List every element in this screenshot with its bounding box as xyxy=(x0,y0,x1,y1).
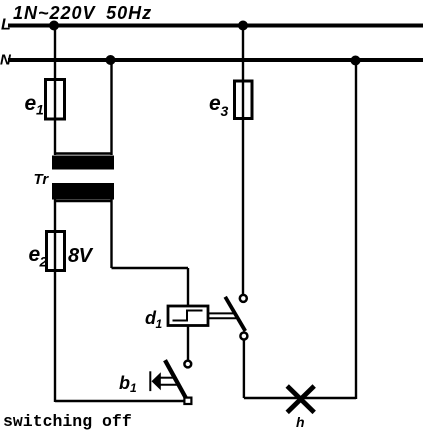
lamp h xyxy=(287,386,314,412)
push-button b1 (NO contact) xyxy=(150,360,191,404)
label e2 xyxy=(29,243,48,270)
terminal: b1 upper xyxy=(184,361,191,368)
terminal: contact d1 lower xyxy=(240,333,247,340)
node: junction of fuse e3 branch on line L xyxy=(238,21,248,31)
wire: transformer secondary right down xyxy=(110,199,112,268)
svg-text:1: 1 xyxy=(130,381,137,395)
wire: contact d1 down to lamp rail xyxy=(243,340,245,398)
svg-text:b: b xyxy=(119,373,130,393)
contact blade d1 xyxy=(225,297,245,331)
transformer Tr primary winding bar xyxy=(52,156,114,170)
wire: bottom rail of control circuit xyxy=(55,400,185,402)
transformer Tr secondary bottom edge xyxy=(54,200,113,203)
wire: relay coil d1 bottom down to push-button b1 xyxy=(187,326,189,361)
contact d1 (NO contact of relay) xyxy=(225,295,247,340)
svg-text:2: 2 xyxy=(39,254,48,270)
wire: neutral line N xyxy=(8,58,423,62)
label b1 xyxy=(119,373,137,395)
svg-text:1N~220V 50Hz: 1N~220V 50Hz xyxy=(13,3,152,23)
mechanical link from coil d1 to contact xyxy=(208,313,236,318)
wire: N line down to transformer primary right xyxy=(110,60,112,155)
label e3 xyxy=(209,92,229,119)
svg-text:1: 1 xyxy=(36,102,44,118)
node: junction of fuse e1 branch on line L xyxy=(49,21,59,31)
wire: transformer secondary left down to bottom rail xyxy=(54,199,56,402)
contact blade b1 xyxy=(165,360,187,400)
label d1 xyxy=(145,308,163,331)
svg-text:e: e xyxy=(25,92,37,115)
svg-text:e: e xyxy=(209,92,221,115)
svg-text:8V: 8V xyxy=(68,245,94,267)
fuse e1 xyxy=(46,80,65,120)
wire: L line down to transformer primary left xyxy=(54,26,56,156)
terminal: contact d1 upper xyxy=(240,295,247,302)
svg-text:Tr: Tr xyxy=(34,171,50,188)
svg-text:switching off: switching off xyxy=(3,412,132,431)
wire: horizontal toward relay coil d1 xyxy=(112,267,189,269)
relay coil d1 (impulse relay) xyxy=(168,306,208,326)
wire: lamp rail up to N line xyxy=(355,60,357,399)
wire: bottom rail through lamp h xyxy=(244,397,356,399)
svg-text:1: 1 xyxy=(156,317,163,331)
wire: L line down through fuse e3 to contact d1 xyxy=(242,26,244,295)
terminal: b1 lower (square) xyxy=(184,398,191,404)
node: junction of transformer branch on line N xyxy=(106,55,116,65)
fuse e2 xyxy=(47,232,65,271)
svg-text:N: N xyxy=(0,52,12,69)
wire: phase line L xyxy=(8,24,423,28)
label e1 xyxy=(25,92,45,118)
transformer Tr primary top edge xyxy=(54,152,113,155)
svg-text:L: L xyxy=(1,17,11,34)
fuse e3 xyxy=(235,81,253,119)
svg-text:3: 3 xyxy=(221,103,229,119)
actuator of b1 (push symbol) xyxy=(149,371,151,391)
wire: down to relay coil d1 top xyxy=(187,268,189,307)
svg-text:h: h xyxy=(296,414,305,430)
node: junction of lamp branch on line N xyxy=(351,56,361,66)
transformer Tr secondary winding bar xyxy=(52,183,114,200)
